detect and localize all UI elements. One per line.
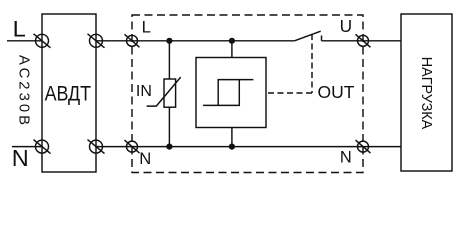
- junction dot L hysteresis: [229, 38, 235, 44]
- hysteresis unit bottom lead: [231, 128, 233, 147]
- varistor body: [164, 79, 176, 107]
- svg-text:L: L: [13, 17, 26, 42]
- slash breaker N in: [34, 140, 51, 154]
- varistor bottom lead: [168, 107, 170, 146]
- junction dot N varistor: [166, 144, 172, 150]
- wire N mains lead: [12, 146, 42, 148]
- wire L breaker to SPD: [96, 40, 132, 42]
- varistor diagonal stroke: [147, 77, 181, 106]
- svg-text:N: N: [12, 145, 29, 171]
- terminal SPD N out: [358, 141, 369, 152]
- slash breaker L out: [88, 34, 105, 48]
- wire switch output to load: [322, 40, 402, 42]
- hysteresis unit box: [196, 58, 266, 128]
- svg-text:OUT: OUT: [318, 82, 355, 102]
- SPD dashed enclosure: [132, 15, 363, 173]
- control link dashed vertical: [311, 34, 313, 93]
- svg-text:N: N: [340, 149, 352, 167]
- slash breaker N out: [88, 140, 105, 154]
- svg-text:НАГРУЗКА: НАГРУЗКА: [418, 57, 435, 130]
- slash SPD N out: [356, 140, 371, 153]
- slash SPD U: [356, 34, 371, 47]
- svg-text:N: N: [139, 149, 151, 168]
- slash breaker L in: [34, 34, 51, 48]
- junction dot L varistor: [166, 38, 172, 44]
- switch blade: [295, 31, 321, 41]
- svg-text:АВДТ: АВДТ: [45, 81, 92, 106]
- junction dot N hysteresis: [229, 144, 235, 150]
- terminal breaker N out: [90, 140, 103, 153]
- wire N breaker to SPD: [96, 146, 132, 148]
- breaker АВДТ box: [42, 14, 96, 172]
- svg-text:IN: IN: [136, 83, 152, 100]
- svg-text:L: L: [142, 17, 151, 36]
- terminal SPD L: [127, 35, 138, 46]
- hysteresis unit top lead: [231, 41, 233, 58]
- wire N bus inside SPD to load: [132, 146, 401, 148]
- load box НАГРУЗКА: [401, 14, 452, 171]
- slash SPD L: [125, 34, 140, 47]
- hysteresis symbol: [203, 80, 253, 106]
- varistor top lead: [168, 41, 170, 79]
- wire L mains lead: [7, 40, 42, 42]
- terminal breaker L in: [36, 34, 49, 47]
- svg-text:U: U: [340, 16, 352, 36]
- terminal SPD U: [358, 35, 369, 46]
- switch fixed contact tick: [321, 36, 323, 41]
- control link dashed horizontal: [266, 92, 312, 94]
- slash SPD N: [125, 140, 140, 153]
- terminal breaker N in: [36, 140, 49, 153]
- terminal breaker L out: [90, 34, 103, 47]
- wire L bus inside SPD to switch hinge: [132, 40, 295, 42]
- terminal SPD N: [127, 141, 138, 152]
